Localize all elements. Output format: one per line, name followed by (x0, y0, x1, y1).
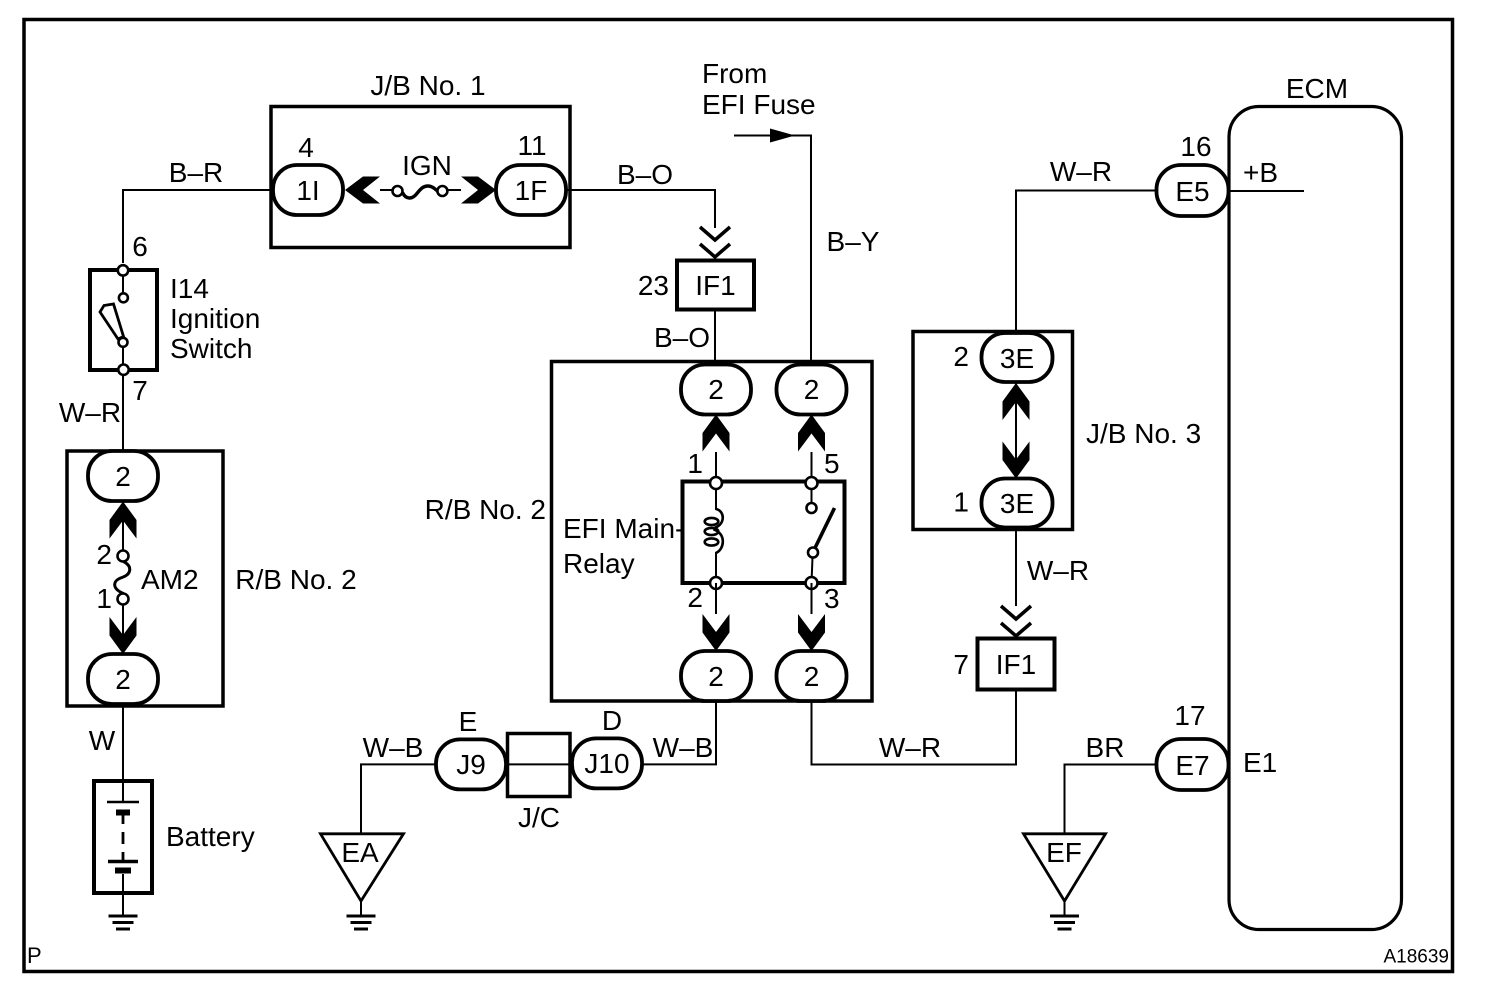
svg-text:2: 2 (115, 461, 131, 492)
svg-text:B–O: B–O (654, 322, 710, 353)
junction connector J10 pin D (572, 705, 642, 788)
svg-text:3E: 3E (1000, 343, 1034, 374)
arrow up (relay pin 5) (798, 415, 840, 484)
wire W-R (relay pin 3 to IF1 pin 7) (812, 689, 1017, 765)
fuse AM2 (96, 539, 198, 614)
svg-text:J/C: J/C (518, 802, 560, 833)
svg-text:AM2: AM2 (141, 564, 199, 595)
junction connector J9 pin E (436, 706, 506, 789)
svg-text:2: 2 (96, 539, 112, 570)
svg-text:1: 1 (687, 448, 703, 479)
ground EA (321, 834, 404, 929)
ground EF (1024, 834, 1106, 929)
svg-text:1F: 1F (515, 175, 548, 206)
svg-text:From: From (702, 58, 767, 89)
svg-text:3: 3 (824, 583, 840, 614)
svg-text:6: 6 (132, 231, 148, 262)
svg-text:EFI Fuse: EFI Fuse (702, 89, 816, 120)
chevron arrows into IF1 pin 23 (700, 227, 730, 257)
svg-text:+B: +B (1243, 157, 1278, 188)
svg-text:EA: EA (341, 837, 379, 868)
svg-text:Ignition: Ignition (170, 303, 260, 334)
relay switch contact (807, 483, 835, 583)
arrow right (J/B No.1) (461, 177, 496, 204)
label From EFI Fuse (702, 58, 816, 120)
connector 2 (R/B No.2 bottom) (88, 654, 158, 704)
svg-text:16: 16 (1180, 131, 1211, 162)
arrow up (to connector 2) (110, 501, 137, 550)
svg-text:IGN: IGN (402, 150, 452, 181)
svg-text:7: 7 (953, 649, 969, 680)
battery (94, 781, 255, 893)
svg-text:2: 2 (115, 664, 131, 695)
arrow down (relay pin 2) (687, 582, 729, 651)
svg-text:11: 11 (517, 130, 546, 161)
connector 2 (relay switch top) (777, 365, 847, 415)
connector IF1 pin 7 (953, 639, 1054, 690)
svg-text:W–B: W–B (653, 732, 714, 763)
junction J/C (508, 734, 571, 834)
node relay pin 2 (710, 577, 722, 589)
chevron arrows into IF1 pin 7 (1001, 606, 1031, 636)
svg-text:W–R: W–R (1027, 555, 1089, 586)
svg-text:2: 2 (953, 341, 969, 372)
junction block J/B No. 1 (271, 70, 570, 248)
svg-text:E: E (459, 706, 478, 737)
wire B-R (J/B No.1 pin 4 to ignition switch pin 6) (123, 157, 274, 263)
junction block J/B No. 3 (913, 332, 1201, 530)
svg-text:P: P (27, 943, 42, 968)
svg-text:J10: J10 (584, 748, 629, 779)
switch I14 ignition switch (90, 265, 260, 375)
svg-text:2: 2 (708, 374, 724, 405)
svg-text:23: 23 (638, 270, 669, 301)
connector 1F pin 11 (496, 130, 566, 215)
connector E7 pin 17 (1157, 700, 1278, 790)
connector 3E pin 1 (953, 479, 1052, 528)
relay coil (705, 483, 723, 583)
arrow down (from fuse AM2) (110, 604, 137, 654)
svg-text:2: 2 (687, 582, 703, 613)
svg-text:W–R: W–R (879, 732, 941, 763)
arrowhead (from EFI fuse) (770, 129, 795, 143)
wire W-B (relay pin 2 to J10) (641, 701, 716, 764)
node relay pin 1 (710, 477, 722, 489)
svg-text:IF1: IF1 (695, 270, 735, 301)
svg-text:3E: 3E (1000, 488, 1034, 519)
wire W-R (E5 to J/B No.3) (1016, 156, 1157, 333)
svg-text:1: 1 (953, 487, 969, 518)
svg-text:R/B No. 2: R/B No. 2 (235, 564, 356, 595)
connector E5 pin 16 (1157, 131, 1229, 216)
wire BR (EF to E7) (1065, 732, 1158, 834)
arrow up (relay pin 1) (687, 415, 729, 484)
ECM (1229, 73, 1402, 930)
connector 2 (relay bottom left) (681, 651, 751, 701)
relay block R/B No. 2 (EFI main relay) (425, 362, 872, 702)
node relay pin 3 (806, 577, 818, 589)
connector IF1 pin 23 (638, 261, 754, 310)
svg-text:W–R: W–R (59, 397, 121, 428)
svg-text:2: 2 (708, 661, 724, 692)
wire W-R (ignition switch pin 7 to R/B No.2) (59, 376, 123, 453)
fuse IGN (380, 150, 461, 198)
arrow left (J/B No.1) (345, 177, 380, 204)
wire W (R/B No.2 to battery) (89, 706, 123, 781)
wire +B (E5 into ECM) (1229, 157, 1304, 191)
svg-text:EFI Main-: EFI Main- (563, 513, 684, 544)
svg-text:Relay: Relay (563, 548, 635, 579)
node relay pin 5 (806, 477, 818, 489)
svg-text:B–O: B–O (617, 159, 673, 190)
svg-text:ECM: ECM (1286, 73, 1348, 104)
svg-text:Battery: Battery (166, 821, 255, 852)
svg-text:2: 2 (804, 661, 820, 692)
svg-text:A18639: A18639 (1383, 947, 1449, 968)
svg-text:7: 7 (132, 375, 148, 406)
connector 1I pin 4 (273, 132, 343, 215)
svg-text:1: 1 (96, 583, 112, 614)
svg-text:17: 17 (1174, 700, 1205, 731)
svg-text:5: 5 (824, 448, 840, 479)
svg-text:W–R: W–R (1050, 156, 1112, 187)
svg-text:Switch: Switch (170, 333, 252, 364)
svg-text:J/B No. 3: J/B No. 3 (1086, 418, 1201, 449)
relay block R/B No. 2 (left) (67, 451, 357, 706)
svg-text:4: 4 (298, 132, 314, 163)
svg-text:I14: I14 (170, 273, 209, 304)
EFI main relay inner box (683, 482, 845, 584)
svg-text:B–R: B–R (169, 157, 223, 188)
wire W-R (J/B No.3 to IF1 pin 7) (1016, 528, 1089, 606)
connector 2 (relay bottom right) (777, 651, 847, 701)
wire B-O (IF1 pin 23 to relay pin 1) (654, 310, 715, 366)
arrow down (relay pin 3) (798, 583, 840, 651)
connector 2 (relay coil top) (681, 365, 751, 415)
svg-text:E7: E7 (1175, 750, 1209, 781)
wire B-O (J/B No.1 pin 11 to IF1 pin 23) (565, 159, 715, 228)
label EFI Main Relay (563, 513, 684, 579)
svg-text:W–B: W–B (363, 732, 424, 763)
svg-text:EF: EF (1046, 837, 1082, 868)
connector 2 (R/B No.2 top) (88, 451, 158, 501)
svg-text:J9: J9 (456, 749, 486, 780)
svg-text:E5: E5 (1175, 176, 1209, 207)
svg-text:D: D (602, 705, 622, 736)
double arrow (J/B No.3) (1003, 383, 1030, 479)
svg-text:E1: E1 (1243, 747, 1277, 778)
wire B-Y (from EFI fuse to relay pin 5) (734, 136, 880, 367)
ground (battery) (109, 893, 138, 929)
svg-text:IF1: IF1 (996, 649, 1036, 680)
svg-text:BR: BR (1086, 732, 1125, 763)
svg-text:J/B No. 1: J/B No. 1 (370, 70, 485, 101)
wire W-B (EA to J9) (361, 732, 436, 834)
svg-text:1I: 1I (296, 175, 319, 206)
svg-text:R/B No. 2: R/B No. 2 (425, 494, 546, 525)
svg-text:B–Y: B–Y (827, 226, 880, 257)
svg-text:W: W (89, 725, 116, 756)
svg-text:2: 2 (804, 374, 820, 405)
connector 3E pin 2 (953, 333, 1052, 382)
